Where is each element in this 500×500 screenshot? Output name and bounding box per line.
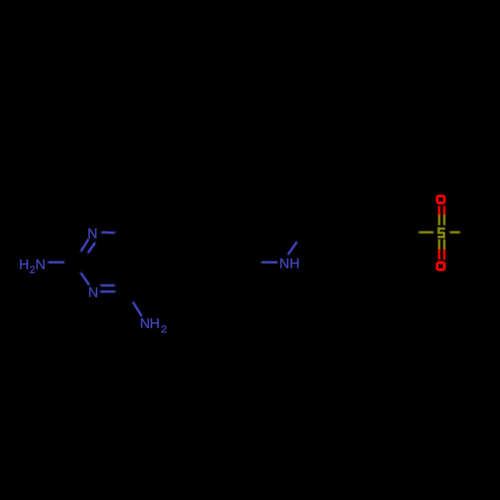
- svg-text:H: H: [150, 315, 160, 331]
- svg-text:N: N: [87, 225, 97, 241]
- svg-text:N: N: [35, 256, 45, 272]
- svg-text:N: N: [140, 315, 150, 331]
- svg-text:N: N: [279, 255, 289, 271]
- svg-text:H: H: [290, 255, 300, 271]
- svg-text:N: N: [88, 284, 98, 300]
- svg-text:2: 2: [161, 324, 167, 336]
- svg-text:H: H: [19, 256, 29, 272]
